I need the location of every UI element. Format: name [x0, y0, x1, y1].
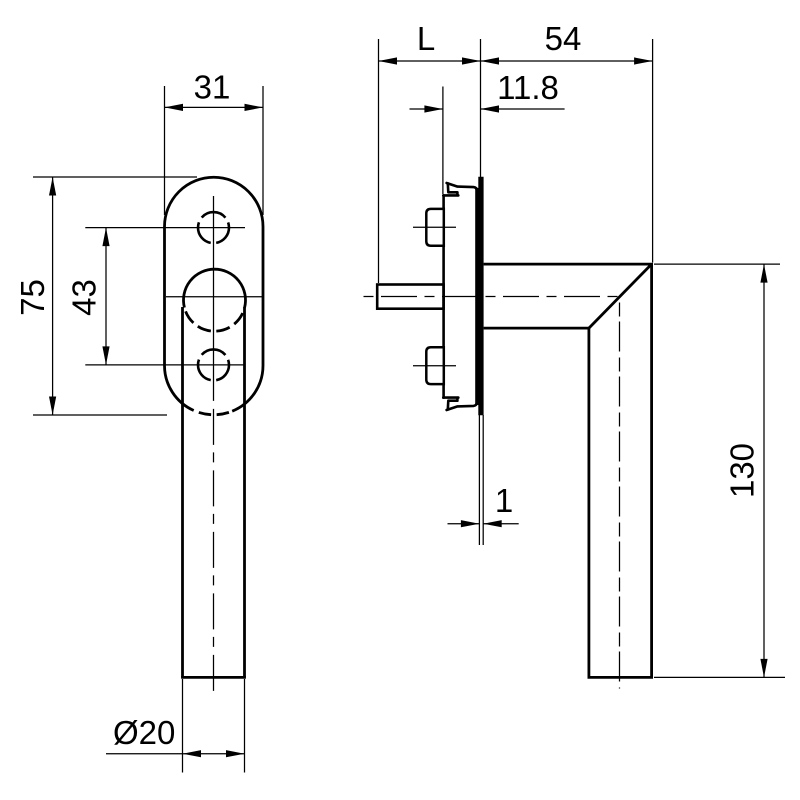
rose plate outline (stadium shape, solid portion)	[165, 177, 264, 411]
rose housing outline (side view)	[443, 183, 477, 410]
extension line at plate face (L right / 54 left)	[480, 39, 482, 177]
handle grip left edge	[181, 307, 184, 677]
extension line 43 top (also hole centre line)	[85, 227, 245, 229]
bottom outer edge with clip tab	[447, 296, 477, 410]
dimension line 75	[52, 177, 54, 415]
extension line 43 bottom (also hole centre line)	[85, 364, 245, 366]
svg-text:75: 75	[14, 279, 51, 316]
extension lines for 75 dimension	[33, 177, 197, 415]
bottom screw hole (broken circle)	[198, 349, 229, 380]
extension lines for Ø20	[183, 679, 245, 773]
extension line at spindle end (L left)	[378, 39, 380, 283]
square spindle	[377, 285, 443, 309]
dimension line 11.8 (outside arrows)	[410, 108, 443, 110]
handle lever outline (side view)	[484, 264, 652, 677]
side view vertical centre line	[619, 298, 621, 689]
extension lines for 1 dimension (plate thickness)	[478, 415, 480, 545]
front view vertical centre line (solid part)	[213, 196, 215, 401]
top outer edge with clip tab	[447, 183, 477, 296]
svg-text:54: 54	[545, 20, 582, 57]
handle neck circle hidden arc (dashed bottom)	[184, 308, 244, 332]
dimension line 130	[763, 264, 765, 677]
extension line at handle outer corner (54 right)	[652, 39, 654, 263]
extension line for 11.8 (rose front face)	[442, 87, 444, 195]
svg-text:31: 31	[194, 69, 231, 106]
svg-text:L: L	[417, 20, 435, 57]
dimension line 43	[105, 228, 107, 365]
bottom fixing screw head	[426, 347, 444, 384]
handle bend mitre line	[589, 264, 652, 328]
side view horizontal centre line	[364, 296, 619, 298]
dimension line L and 54	[379, 60, 653, 62]
flange plate (filled black, 1mm)	[475, 177, 483, 415]
bottom screw centre line	[413, 365, 456, 367]
handle neck circle solid arc	[183, 269, 245, 307]
svg-text:43: 43	[66, 279, 103, 316]
rose front face	[442, 195, 445, 397]
svg-text:1: 1	[495, 482, 513, 519]
extension lines for 31 dimension	[165, 86, 264, 215]
front view vertical centre line (chain part)	[213, 401, 215, 693]
svg-text:130: 130	[724, 443, 761, 498]
top fixing screw head	[426, 209, 444, 246]
big circle horizontal centre line	[166, 296, 262, 298]
handle grip right edge	[243, 307, 246, 677]
rose plate bottom arc hidden behind grip (dashed)	[194, 411, 233, 415]
dimension line 31	[165, 106, 264, 108]
top screw hole (broken circle)	[198, 212, 229, 243]
svg-text:11.8: 11.8	[497, 69, 559, 106]
top screw centre line	[413, 226, 456, 228]
dimension line Ø20 with leader	[106, 753, 245, 755]
dimension line 1 (outside arrows)	[448, 523, 480, 525]
svg-text:Ø20: Ø20	[113, 714, 175, 751]
extension lines for 130	[654, 263, 780, 265]
handle grip bottom edge	[181, 676, 246, 679]
